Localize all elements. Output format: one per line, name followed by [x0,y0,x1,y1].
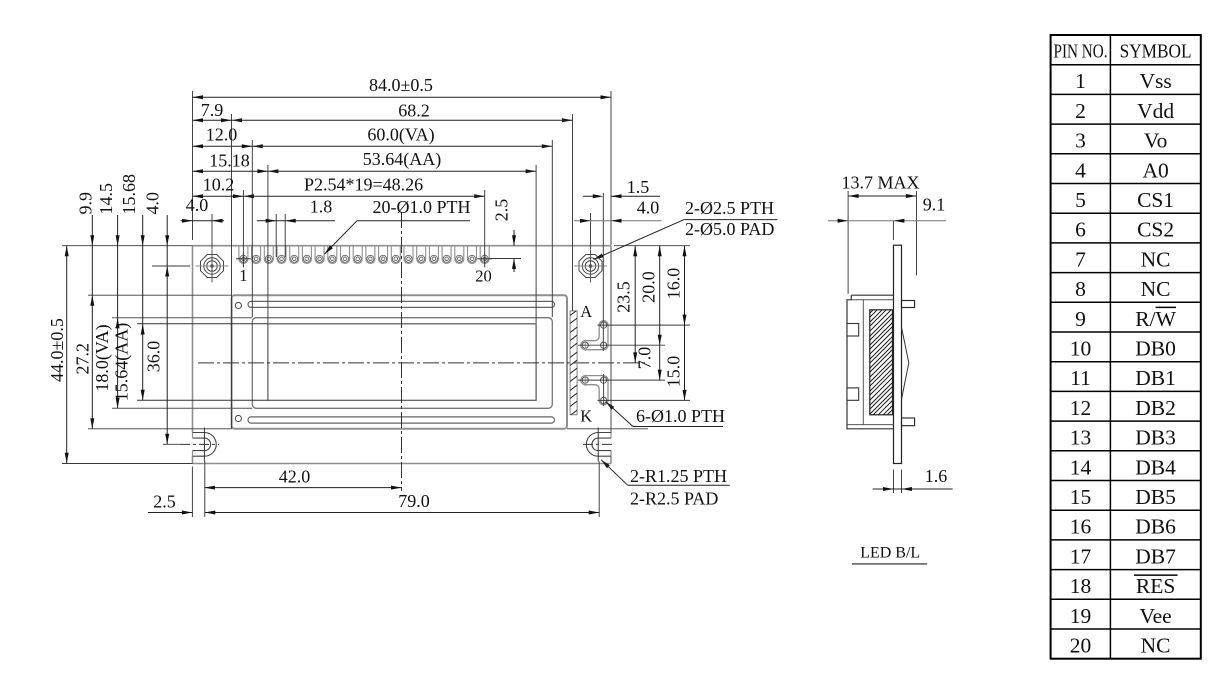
notch left centerlines [180,443,219,445]
bezel bottom slot [248,417,555,423]
notch left 2-R2.5 pad outline [193,433,217,457]
svg-text:Vee: Vee [1139,604,1171,628]
svg-text:20-Ø1.0 PTH: 20-Ø1.0 PTH [373,197,471,217]
svg-text:DB5: DB5 [1135,485,1176,509]
svg-text:2.5: 2.5 [153,492,176,512]
VA window rectangle 60.0x18.0 [252,318,552,409]
extension line pcb top to right [614,245,690,247]
svg-text:42.0: 42.0 [279,467,311,487]
svg-text:13.7 MAX: 13.7 MAX [841,173,919,193]
pin 20 center cross [477,258,492,260]
dim 10.2 [193,195,244,197]
pin table column divider [1109,35,1111,659]
svg-text:DB4: DB4 [1135,455,1176,479]
dim 2.5 bottom [148,512,192,514]
svg-text:Vo: Vo [1144,129,1168,153]
svg-text:NC: NC [1141,247,1171,271]
svg-text:PIN NO.: PIN NO. [1054,42,1108,63]
dim 23.5 (rotated) [634,246,636,363]
svg-text:16.0: 16.0 [664,268,684,300]
pin 1 center cross [236,258,251,260]
dim 4.0 right [574,220,662,222]
terminal A pad outline [581,321,608,350]
extension VA top/bottom left [112,317,252,319]
svg-text:9.9: 9.9 [76,192,96,215]
svg-text:1.8: 1.8 [310,197,333,217]
svg-text:10: 10 [1070,337,1092,361]
pin table row lines [1051,64,1201,66]
extension line bezel top to left [88,294,232,296]
svg-text:15.64(AA): 15.64(AA) [112,323,133,402]
dim 14.5 and 18.0(VA) line [117,215,119,408]
label 2-O2.5 PTH / 2-O5.0 PAD with leader [594,254,604,260]
svg-text:DB3: DB3 [1135,426,1176,450]
dim 15.18 [193,170,268,172]
svg-text:5: 5 [1075,188,1086,212]
20 connector pads 20-O1.0 PTH [239,246,248,264]
dim 1.8 pad width [257,220,335,222]
svg-text:9: 9 [1075,307,1086,331]
svg-text:7.0: 7.0 [635,347,655,370]
svg-text:23.5: 23.5 [614,281,634,313]
svg-text:12: 12 [1070,396,1092,420]
svg-text:CS1: CS1 [1137,188,1174,212]
svg-text:2-R2.5 PAD: 2-R2.5 PAD [630,489,718,509]
svg-text:16: 16 [1070,515,1092,539]
notch right R1.25 slot [592,438,611,451]
PCB outline bottom edge [193,463,612,465]
svg-text:15: 15 [1070,485,1092,509]
display horizontal centerline [198,362,648,364]
PCB outline top edge [193,245,612,247]
svg-text:2-Ø2.5 PTH: 2-Ø2.5 PTH [685,198,774,218]
dim 53.64(AA) [268,169,279,173]
svg-text:36.0: 36.0 [144,341,164,373]
pin table frame [1051,35,1201,659]
svg-text:14: 14 [1070,455,1092,479]
svg-text:CS2: CS2 [1137,218,1174,242]
svg-text:68.2: 68.2 [398,100,430,120]
dim 1.8 extension lines [275,214,277,257]
svg-text:18: 18 [1070,574,1092,598]
dim 4.0 top left [193,220,213,222]
svg-text:2-Ø5.0 PAD: 2-Ø5.0 PAD [685,219,774,239]
svg-text:LED B/L: LED B/L [860,545,920,562]
dim 1.5 [583,195,600,197]
svg-text:7.9: 7.9 [201,100,224,120]
svg-text:53.64(AA): 53.64(AA) [363,149,442,170]
bezel outline [232,295,567,429]
side view module body outline [847,295,894,429]
terminal K holes 3x O1.0 [582,377,588,383]
svg-text:13: 13 [1070,426,1092,450]
extension line pcb top to left [62,245,193,247]
label 6-O1.0 PTH with leader [606,402,615,410]
svg-text:44.0±0.5: 44.0±0.5 [47,318,67,382]
svg-text:SYMBOL: SYMBOL [1120,42,1192,63]
dim 79.0 [205,512,599,514]
svg-text:9.1: 9.1 [923,195,946,215]
notch left edge segments [192,433,194,439]
bezel hole top-left [235,302,241,308]
extension lines bottom [191,467,193,518]
notch right centerlines [583,443,615,445]
extension AA top/bottom left [137,323,268,325]
notch right 2-R2.5 pad outline [586,433,611,457]
side view body inner lines [851,299,893,301]
svg-text:1.6: 1.6 [925,466,948,486]
extension lines right dims [598,324,691,326]
side view clip top [847,324,859,337]
svg-text:R/W: R/W [1135,307,1176,331]
svg-text:6: 6 [1075,218,1086,242]
dim 42.0 [204,487,401,489]
extension lines top [192,91,194,240]
side view tab bottom right [902,418,915,426]
display vertical centerline [401,212,403,491]
dim 68.2 [232,118,243,122]
extension notch center left [163,443,180,445]
terminal K pad outline [581,376,608,405]
dim 1.6 [893,470,895,493]
svg-text:NC: NC [1141,277,1171,301]
svg-text:P2.54*19=48.26: P2.54*19=48.26 [304,174,423,194]
svg-text:2.5: 2.5 [492,199,512,222]
svg-text:79.0: 79.0 [398,491,430,511]
svg-text:7: 7 [1075,247,1086,271]
svg-text:Vdd: Vdd [1137,99,1174,123]
svg-text:1.5: 1.5 [627,177,650,197]
svg-text:4.0: 4.0 [186,195,209,215]
dim 2.5 pad length (rotated) [513,230,515,246]
dim 13.7 MAX [848,195,916,197]
svg-text:1: 1 [1075,69,1086,93]
svg-text:Vss: Vss [1139,69,1171,93]
dim 15.68 and 15.64(AA) line [142,215,144,400]
svg-text:18.0(VA): 18.0(VA) [92,324,113,391]
label 20-O1.0 PTH with leader [357,220,470,222]
svg-text:1: 1 [239,266,247,285]
dim 12.0 [193,145,253,147]
svg-text:K: K [580,407,592,426]
svg-text:DB1: DB1 [1135,366,1176,390]
dim P2.54*19=48.26 [243,194,254,198]
notch left R1.25 slot [193,438,211,451]
svg-text:15.68: 15.68 [119,174,139,215]
side view PCB board [894,245,902,463]
dim 4.0 pin row and 36.0 line [166,215,168,444]
svg-text:DB7: DB7 [1135,544,1176,568]
bezel top slot [248,301,555,307]
svg-text:15.0: 15.0 [664,356,684,388]
svg-text:6-Ø1.0 PTH: 6-Ø1.0 PTH [636,406,725,426]
PCB outline right edge [610,246,612,433]
svg-text:RES: RES [1136,574,1175,598]
svg-text:2: 2 [1075,99,1086,123]
dim 7.9 [193,119,232,121]
svg-text:4.0: 4.0 [143,192,163,215]
mounting hole left 2-O2.5 PTH / 2-O5.0 PAD [201,255,224,278]
svg-text:27.2: 27.2 [72,343,92,375]
svg-text:DB6: DB6 [1135,515,1176,539]
svg-text:3: 3 [1075,129,1086,153]
svg-text:19: 19 [1070,604,1092,628]
svg-text:4: 4 [1075,158,1086,182]
svg-text:A0: A0 [1142,158,1168,182]
dim 9.9 and 27.2 line [91,215,93,429]
PCB outline left edge [192,246,194,433]
svg-text:4.0: 4.0 [637,198,660,218]
label 2-R1.25 PTH / 2-R2.5 PAD with leader [601,460,610,468]
svg-text:12.0: 12.0 [206,125,238,145]
svg-text:10.2: 10.2 [203,174,235,194]
svg-text:17: 17 [1070,544,1092,568]
dim 44.0+-0.5 (rotated) [66,246,68,464]
svg-text:11: 11 [1070,366,1091,390]
extension line bezel bottom both sides [88,428,232,430]
svg-text:14.5: 14.5 [96,183,116,215]
svg-text:8: 8 [1075,277,1086,301]
svg-text:NC: NC [1141,634,1171,658]
side view wedge [902,327,909,399]
dim 84.0+-0.5 [193,96,612,98]
dim 60.0(VA) [252,144,262,148]
svg-text:2-R1.25 PTH: 2-R1.25 PTH [630,466,727,486]
svg-text:20: 20 [475,267,492,286]
svg-text:A: A [580,302,592,321]
extension pin row left [152,265,190,267]
svg-text:DB0: DB0 [1135,337,1176,361]
svg-text:20: 20 [1070,634,1092,658]
terminal A holes 3x O1.0 [601,322,607,328]
extension line pcb bottom to left [62,463,193,465]
dim 16.0 and 15.0 (rotated) [684,246,686,401]
svg-text:60.0(VA): 60.0(VA) [367,125,434,146]
svg-text:DB2: DB2 [1135,396,1176,420]
side view clip bottom [847,388,859,400]
dim 20.0 and 7.0 (rotated) [659,246,661,380]
mounting hole right 2-O2.5 PTH / 2-O5.0 PAD [579,255,602,278]
svg-text:84.0±0.5: 84.0±0.5 [369,75,433,95]
svg-text:20.0: 20.0 [639,271,659,303]
AA active area rectangle 53.64x15.64 [268,324,536,401]
svg-text:15.18: 15.18 [209,151,250,171]
side view tab top right [902,301,915,308]
bezel hole bottom-left [235,415,241,421]
dim 9.1 [828,220,946,222]
